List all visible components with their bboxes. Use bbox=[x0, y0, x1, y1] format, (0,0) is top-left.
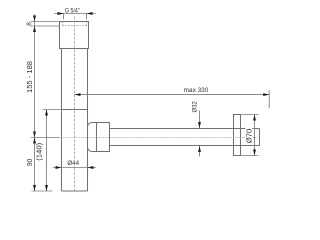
svg-text:max 330: max 330 bbox=[184, 87, 209, 94]
arrow 8 top bbox=[33, 16, 36, 22]
arrow Ø70 bottom bbox=[253, 150, 256, 156]
arrow 90 top bbox=[33, 138, 36, 144]
dimension Ø70 line bbox=[254, 115, 256, 156]
horizontal centerline bbox=[59, 137, 258, 139]
arrow (140) bottom bbox=[45, 185, 48, 191]
arrow (140) top bbox=[45, 110, 48, 116]
dimension Ø44 line bbox=[53, 167, 96, 169]
arrow G5/4 right bbox=[87, 12, 93, 15]
svg-text:90: 90 bbox=[26, 159, 34, 167]
arrow Ø44 right bbox=[88, 166, 94, 169]
left dimension line column (8 / 155-188 / 90) bbox=[34, 14, 36, 191]
arrow max330 right bbox=[263, 93, 269, 96]
vertical centerline bbox=[74, 17, 76, 192]
extension line nut top (8 upper) bbox=[31, 21, 60, 23]
arrow 90 bottom bbox=[33, 185, 36, 191]
outlet bell (trumpet transition) bbox=[88, 123, 97, 152]
label Ø44 white mask bbox=[67, 159, 81, 166]
arrow Ø70 top bbox=[253, 115, 256, 121]
dimension (140) line bbox=[46, 110, 48, 192]
arrow G5/4 left bbox=[58, 12, 64, 15]
body joint line bbox=[62, 109, 88, 111]
thread dashed outline inside nut bbox=[63, 22, 87, 26]
svg-text:Ø70: Ø70 bbox=[244, 129, 253, 144]
label Ø70 white mask bbox=[245, 128, 252, 145]
outlet union nut bbox=[97, 123, 110, 152]
arrow Ø32 bottom bbox=[198, 146, 201, 152]
arrowheads bbox=[33, 12, 269, 191]
extension line max330 right bbox=[268, 90, 270, 108]
top nut G5/4 body bbox=[60, 22, 89, 49]
dimension G 5/4 line and extensions bbox=[54, 14, 96, 20]
vertical body tube (Ø44) bbox=[62, 49, 88, 192]
arrow 155-188 bottom bbox=[33, 132, 36, 138]
dimension Ø32 lower line bbox=[199, 146, 201, 157]
svg-text:Ø32: Ø32 bbox=[191, 101, 198, 113]
horizontal outlet pipe (Ø32) bbox=[110, 129, 260, 146]
dimension Ø32 upper line bbox=[199, 111, 201, 129]
svg-text:(140): (140) bbox=[37, 143, 44, 161]
arrow 8 bottom / 155-188 top bbox=[33, 26, 36, 32]
extension line bottom left bbox=[32, 190, 53, 192]
svg-text:G 5/4": G 5/4" bbox=[65, 7, 80, 14]
dimension max330 line bbox=[75, 94, 270, 96]
arrow Ø44 left bbox=[56, 166, 62, 169]
svg-text:155 - 188: 155 - 188 bbox=[25, 61, 34, 93]
arrow max330 left bbox=[75, 93, 81, 96]
extension lines Ø70 bbox=[241, 115, 259, 156]
wall flange (Ø70 rosette) bbox=[234, 115, 241, 156]
extension line 8 lower bbox=[31, 25, 60, 27]
extension line (140) top bbox=[43, 109, 62, 111]
arrow Ø32 top bbox=[198, 122, 201, 128]
svg-text:Ø44: Ø44 bbox=[67, 160, 79, 167]
extension line centerline left bbox=[31, 137, 59, 139]
svg-text:8: 8 bbox=[26, 22, 33, 26]
